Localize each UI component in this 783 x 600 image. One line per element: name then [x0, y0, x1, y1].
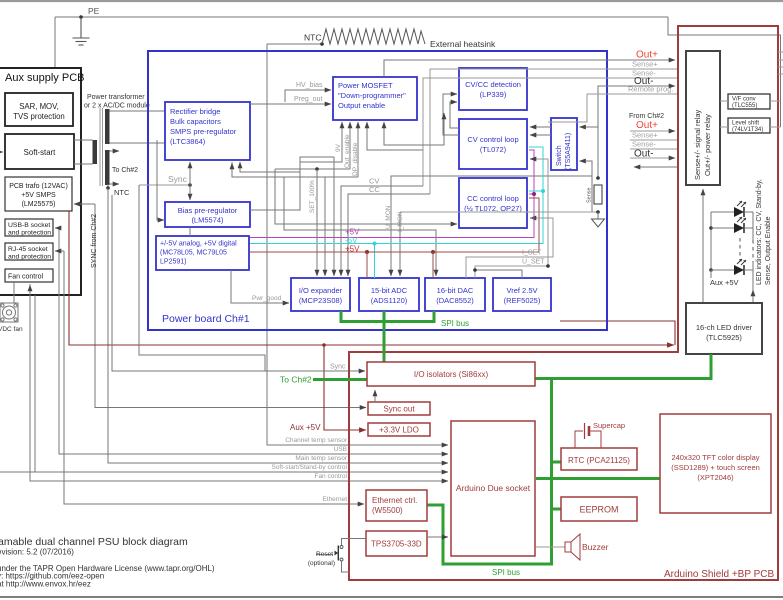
transformer secondary lower winding [105, 150, 110, 185]
LED 3 [711, 259, 753, 275]
green bus vertical shield [550, 377, 553, 566]
svg-text:Sense-: Sense- [632, 140, 656, 149]
svg-text:External heatsink: External heatsink [430, 39, 496, 49]
svg-text:amable dual channel PSU block: amable dual channel PSU block diagram [0, 536, 188, 548]
block RTC PCA21125 [561, 448, 637, 470]
wire Remote prog row [548, 94, 678, 122]
node sync [188, 183, 192, 187]
svg-text:I/O expander: I/O expander [299, 286, 343, 295]
svg-text:Sense+: Sense+ [632, 131, 658, 140]
svg-text:(MCP23S08): (MCP23S08) [299, 296, 343, 305]
svg-text:V/F conv: V/F conv [732, 97, 756, 103]
svg-text:Arduino Shield +BP PCB: Arduino Shield +BP PCB [664, 569, 774, 580]
wire sync to isolators [112, 195, 365, 371]
sense resistor bottom wire [400, 211, 598, 213]
svg-text:(TL072): (TL072) [480, 145, 507, 154]
block TFT display [660, 414, 771, 513]
wire 9V arrow [300, 122, 342, 162]
svg-text:RJ-45 socket: RJ-45 socket [8, 246, 48, 253]
svg-text:Out+: Out+ [636, 120, 658, 131]
wire sync from ch2 vertical [95, 204, 366, 408]
svg-text:Ethernet: Ethernet [322, 496, 347, 503]
svg-text:SMPS pre-regulator: SMPS pre-regulator [170, 127, 237, 136]
svg-text:(LP339): (LP339) [480, 90, 507, 99]
wires V/F and level shift stubs [720, 100, 728, 102]
svg-text:Pwr_good: Pwr_good [252, 295, 282, 302]
wire soft-start stand-by control [34, 295, 36, 472]
wire I_MON [399, 212, 401, 276]
block SAR MOV TVS protection [5, 93, 73, 126]
wire set100 to expander [300, 156, 334, 158]
svg-text:and protection: and protection [8, 254, 51, 261]
block 16-ch LED driver TLC5925 [686, 303, 762, 354]
svg-text:(TS5A9411): (TS5A9411) [565, 133, 572, 170]
svg-text:(LTC3864): (LTC3864) [170, 137, 206, 146]
svg-text:Soft-start/Stand-by control: Soft-start/Stand-by control [271, 464, 347, 471]
svg-text:and protection: and protection [8, 230, 51, 237]
wire relay to LED driver vertical [702, 189, 704, 303]
svg-text:SPI bus: SPI bus [441, 319, 469, 328]
svg-text:Sync: Sync [168, 174, 188, 184]
svg-text:or 2 x AC/DC module: or 2 x AC/DC module [84, 103, 150, 110]
svg-text:I/O isolators (Si86xx): I/O isolators (Si86xx) [414, 370, 489, 379]
svg-text:Sync out: Sync out [383, 405, 415, 414]
svg-text:USB-B socket: USB-B socket [8, 222, 50, 229]
wire bias to rectifier feedback [240, 162, 300, 172]
svg-text:Bias pre-regulator: Bias pre-regulator [178, 206, 238, 215]
svg-text:9V: 9V [335, 143, 342, 152]
buzzer wire [536, 546, 565, 548]
block Level shift 74LV1T34 [728, 118, 770, 133]
reset switch pushbutton [342, 539, 367, 546]
wires CV/CC detection inputs [450, 102, 459, 128]
svg-text:USB: USB [334, 446, 347, 453]
wire rect bottom to DAC [232, 162, 436, 276]
block Fan control [5, 269, 53, 282]
block USB-B socket and protection [5, 219, 53, 236]
svg-text:Out+/- power relay: Out+/- power relay [703, 114, 712, 176]
block +3.3V LDO [368, 423, 430, 436]
LED 1 [711, 201, 753, 217]
red wire Aux +5V distribution [69, 211, 674, 345]
svg-text:Main temp sensor: Main temp sensor [295, 455, 347, 462]
svg-text:"Down-programmer": "Down-programmer" [338, 91, 406, 100]
right rail to LED driver [752, 212, 754, 240]
green ethernet spi [427, 505, 553, 564]
wire pwr good [231, 270, 289, 303]
svg-text:CV/CC detection: CV/CC detection [465, 80, 521, 89]
wire RJ-45 to Ethernet ctrl [64, 251, 364, 504]
svg-text:Fan control: Fan control [8, 274, 43, 281]
svg-text:TPS3705-33D: TPS3705-33D [371, 540, 422, 549]
wire aux5v rail top [710, 270, 712, 278]
svg-text:Switch: Switch [556, 145, 563, 166]
green To Ch#2 bus [313, 378, 367, 381]
wire Out+ from mosfet top [384, 60, 675, 77]
svg-text:Aux supply PCB: Aux supply PCB [5, 72, 84, 84]
svg-text:I_SET: I_SET [522, 250, 542, 257]
svg-text:TVS protection: TVS protection [13, 112, 65, 121]
wire vref to dac [475, 270, 522, 278]
svg-text:Bulk capacitors: Bulk capacitors [170, 117, 221, 126]
svg-text:Fan control: Fan control [314, 473, 347, 480]
svg-text:Sense, Output Enable: Sense, Output Enable [765, 216, 772, 285]
wire bias to analog regulators [189, 227, 191, 236]
green SPI bus power board [340, 311, 436, 362]
wire CC status [348, 194, 430, 276]
svg-text:Preg_out: Preg_out [294, 96, 322, 103]
svg-text:Soft-start: Soft-start [24, 148, 56, 157]
labels I SET U SET [546, 264, 550, 268]
wire To Ch#2 lower arrow [110, 183, 120, 185]
svg-text:VDC fan: VDC fan [0, 326, 23, 333]
svg-text:DP_disable: DP_disable [352, 142, 359, 176]
wire CC loop lower arrow [531, 217, 535, 219]
wires switch to CV loop [530, 126, 551, 128]
svg-text:Buzzer: Buzzer [582, 542, 609, 552]
wire Sense- row [423, 78, 678, 186]
svg-text:(TLC5925): (TLC5925) [706, 333, 742, 342]
wire channel temp sensor from heatsink NTC [267, 44, 448, 445]
svg-text:To Ch#2: To Ch#2 [112, 167, 138, 174]
svg-text:Power board Ch#1: Power board Ch#1 [162, 313, 250, 325]
top page border [0, 0, 783, 2]
LED 2 [711, 217, 753, 233]
svg-text:+/-5V analog, +5V digital: +/-5V analog, +5V digital [160, 241, 237, 248]
block Sense signal relay [686, 51, 720, 185]
green bus due to TFT [536, 477, 660, 480]
red +5V rail [250, 198, 539, 252]
wire PE right segment down [668, 17, 781, 127]
svg-text:CC control loop: CC control loop [467, 194, 519, 203]
red wire Aux +5V to LDO [324, 345, 366, 430]
LED column left rail [710, 212, 712, 270]
block RJ-45 socket and protection [5, 243, 53, 260]
svg-text:PE: PE [88, 6, 100, 16]
svg-text:SET_100%: SET_100% [309, 180, 316, 213]
wire Out- row from sense resistor [598, 86, 675, 178]
block CC control loop TL072 OP27 [459, 178, 527, 228]
svg-text:16-bit DAC: 16-bit DAC [437, 286, 474, 295]
wire rectifier to bias vertical [189, 162, 191, 185]
dashed continuation [739, 238, 741, 262]
Power board Ch#1 outline [148, 51, 607, 330]
svg-text:Level shift: Level shift [732, 121, 759, 127]
sense resistor [594, 185, 602, 204]
svg-text:CC: CC [369, 185, 380, 194]
wire return to Ch#2 [634, 166, 678, 168]
block +/-5V analog +5V digital [156, 236, 249, 270]
wire into PCB trafo [74, 203, 95, 205]
wire PE to Aux supply PCB [54, 17, 56, 68]
node Aux +5V branch [322, 343, 326, 347]
block Arduino Due socket [451, 421, 535, 556]
svg-text:Output enable: Output enable [338, 101, 385, 110]
node NTC transformer [107, 184, 109, 188]
svg-text:(74LV1T34): (74LV1T34) [732, 127, 763, 133]
wires into switch right [580, 126, 599, 128]
block Switch TS5A9411 [551, 118, 577, 170]
block Sync out [368, 402, 430, 415]
svg-text:Channel temp sensor: Channel temp sensor [285, 437, 348, 444]
svg-text:Out_enable: Out_enable [344, 134, 351, 168]
ground open triangle [597, 212, 599, 219]
wire Preg_out into mosfet [250, 103, 331, 105]
block Bias pre-regulator LM5574 [165, 202, 250, 227]
svg-text:15-bit ADC: 15-bit ADC [371, 286, 408, 295]
svg-text:Sense+/- signal relay: Sense+/- signal relay [693, 110, 702, 180]
svg-text:From Ch#2: From Ch#2 [629, 113, 664, 120]
wire HV_bias into mosfet [285, 90, 331, 102]
block CV control loop TL072 [459, 119, 527, 169]
wire soft-start to primary bottom [74, 163, 93, 165]
wire det box bottom input [384, 113, 444, 145]
svg-text:(LM5574): (LM5574) [191, 216, 224, 225]
wire USB-B to Due [59, 228, 448, 454]
svg-text:(XPT2046): (XPT2046) [697, 473, 734, 482]
svg-text:Power MOSFET: Power MOSFET [338, 81, 393, 90]
svg-text:(W5500): (W5500) [372, 506, 403, 515]
svg-text:Ethernet ctrl.: Ethernet ctrl. [372, 496, 417, 505]
block Rectifier bridge SMPS pre-regulator LTC3864 [165, 102, 250, 160]
svg-text:EEPROM: EEPROM [579, 505, 618, 515]
node PE junction [79, 15, 83, 19]
svg-text:CV control loop: CV control loop [467, 135, 518, 144]
svg-text:Sense+: Sense+ [632, 60, 658, 69]
buzzer icon [565, 542, 571, 552]
block PCB trafo 12VAC 5V SMPS LM25575 [5, 177, 72, 211]
svg-text:NTC: NTC [304, 33, 321, 43]
svg-text:(optional): (optional) [308, 560, 335, 567]
svg-text:Supercap: Supercap [593, 421, 625, 430]
svg-text:Remote prog.: Remote prog. [628, 85, 673, 94]
wire U_MON [391, 176, 592, 276]
svg-text:LED indicators: CC, CV, Stand-: LED indicators: CC, CV, Stand-by, [756, 179, 763, 285]
wire fan control to Due [30, 284, 445, 481]
block TPS3705-33D [366, 531, 427, 556]
svg-text:LP2591): LP2591) [160, 259, 186, 266]
wire soft-start to primary top [74, 139, 93, 141]
heatsink zigzag resistor [322, 29, 425, 44]
svg-text:U_SET: U_SET [522, 259, 545, 266]
block 16-bit DAC DAC8552 [425, 278, 485, 311]
magenta +5V rail [250, 150, 534, 238]
svg-text:Rectifier bridge: Rectifier bridge [170, 107, 220, 116]
wire into Soft-start from left [0, 151, 3, 153]
svg-text:Reset: Reset [316, 551, 333, 558]
wire left bus to bias input [157, 140, 164, 220]
wires relay outputs to edge [778, 51, 783, 53]
svg-text:evision: 5.2 (07/2016): evision: 5.2 (07/2016) [0, 548, 74, 557]
cyan -5V rail [250, 147, 543, 244]
svg-text:+5V SMPS: +5V SMPS [21, 192, 56, 199]
red wire aux5v right segment [560, 321, 675, 345]
block Power MOSFET down-programmer [333, 77, 417, 120]
svg-text:Sync: Sync [330, 364, 346, 371]
block CV/CC detection LP339 [459, 68, 527, 110]
right PCB L-shaped outline [349, 26, 778, 580]
ground earth symbol [73, 17, 90, 45]
svg-text:Arduino Due socket: Arduino Due socket [456, 483, 531, 493]
Aux supply PCB outline [0, 68, 81, 295]
svg-text:16-ch LED driver: 16-ch LED driver [696, 323, 753, 332]
block I/O expander MCP23S08 [291, 278, 350, 311]
svg-text:NTC: NTC [114, 188, 130, 197]
svg-text:RTC (PCA21125): RTC (PCA21125) [568, 456, 630, 465]
svg-text:(MC78L05, MC79L05: (MC78L05, MC79L05 [160, 250, 227, 257]
wire U SET [475, 159, 548, 278]
svg-text:at http://www.envox.hr/eez: at http://www.envox.hr/eez [0, 580, 91, 589]
svg-text:Sense: Sense [587, 187, 593, 203]
wire secondary AC2 to rectifier [110, 142, 166, 144]
block I/O isolators Si86xx [367, 362, 535, 386]
wire CV status [341, 186, 423, 276]
wire out enable [275, 168, 350, 170]
green stub RTC [550, 461, 561, 464]
svg-text:Aux +5V: Aux +5V [290, 423, 321, 432]
wire To Ch#2 upper arrow [110, 150, 120, 152]
svg-text:(DAC8552): (DAC8552) [436, 296, 474, 305]
svg-text:SAR, MOV,: SAR, MOV, [19, 102, 59, 111]
green bus isolators to LED driver [535, 354, 711, 379]
transformer secondary upper winding [105, 109, 110, 144]
wire fan control to fan icon [13, 282, 15, 303]
transformer core [99, 108, 101, 186]
svg-text:+3.3V LDO: +3.3V LDO [379, 426, 419, 435]
block Ethernet ctrl W5500 [366, 490, 427, 521]
svg-text:(ADS1120): (ADS1120) [371, 296, 408, 305]
wire DP disable [232, 176, 358, 178]
VDC fan icon [0, 303, 18, 322]
svg-text:+5V: +5V [345, 245, 360, 254]
wire TPS to due [427, 536, 448, 538]
wire main temp sensor NTC down [108, 188, 448, 463]
svg-text:(SSD1289) + touch screen: (SSD1289) + touch screen [671, 463, 760, 472]
wire secondary AC1 to rectifier [110, 110, 166, 112]
svg-text:PCB trafo (12VAC): PCB trafo (12VAC) [9, 183, 68, 190]
transformer primary winding [93, 140, 98, 164]
wire I SET [466, 218, 553, 278]
svg-text:Power transformer: Power transformer [87, 94, 145, 101]
wire bias output 9V loop [250, 157, 334, 210]
svg-text:(TLC555): (TLC555) [732, 103, 757, 109]
block Vref 2.5V REF5025 [493, 278, 551, 311]
wire sync net horizontal [139, 184, 190, 186]
wire aux stand-by to shield [139, 185, 265, 371]
green stub EEPROM [550, 508, 561, 511]
svg-text:HV_bias: HV_bias [296, 82, 323, 89]
svg-text:240x320 TFT color display: 240x320 TFT color display [671, 453, 759, 462]
block Soft-start [5, 134, 74, 169]
block 15-bit ADC ADS1120 [359, 278, 419, 311]
svg-text:U_MON: U_MON [385, 205, 392, 229]
svg-text:Aux +5V: Aux +5V [710, 278, 739, 287]
svg-text:SPI bus: SPI bus [492, 568, 520, 577]
svg-text:To Ch#2: To Ch#2 [280, 375, 312, 385]
block V/F conv TLC555 [728, 94, 770, 109]
wire Sense+ row [430, 69, 678, 194]
svg-text:SYNC from Ch#2: SYNC from Ch#2 [91, 214, 98, 268]
svg-text:I_MON: I_MON [397, 211, 404, 232]
block EEPROM [561, 497, 637, 521]
svg-text:(REF5025): (REF5025) [504, 296, 541, 305]
wire PE horizontal [55, 16, 668, 18]
wire sync out to isolators [374, 390, 376, 402]
svg-text:(LM25575): (LM25575) [22, 201, 56, 208]
wire CC box left input [275, 169, 457, 224]
wire NTC heatsink lead [267, 43, 322, 45]
supercap [575, 431, 583, 448]
bottom page border [0, 596, 783, 598]
svg-text:Vref 2.5V: Vref 2.5V [507, 286, 538, 295]
